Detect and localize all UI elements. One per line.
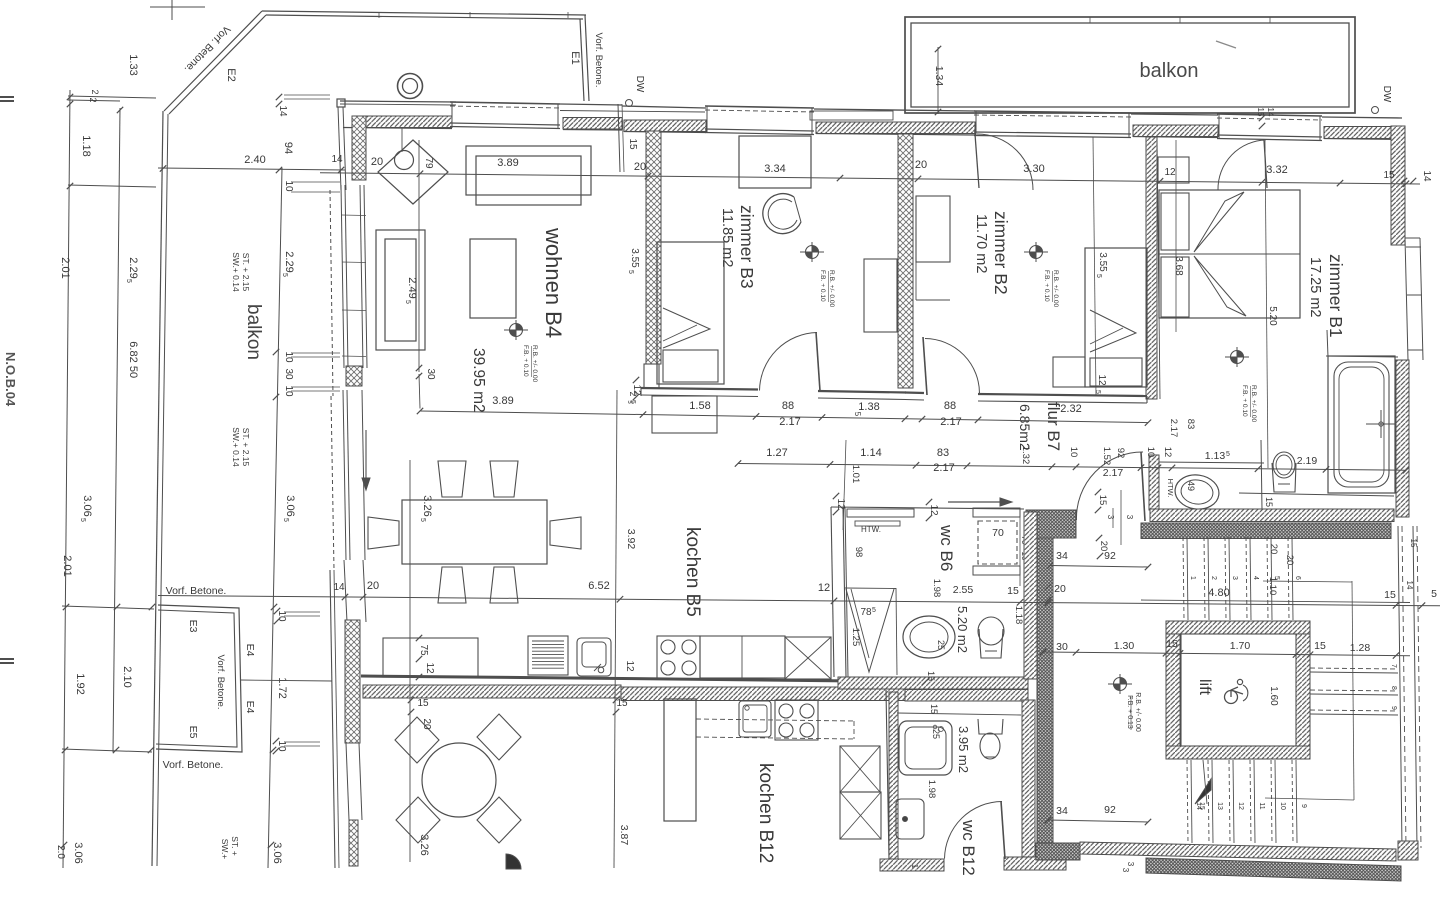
svg-text:5: 5 (281, 273, 288, 277)
svg-text:2: 2 (90, 89, 100, 94)
svg-text:3.34: 3.34 (764, 163, 785, 175)
svg-text:ST. +: ST. + (230, 836, 240, 856)
svg-text:2.49: 2.49 (406, 277, 418, 298)
svg-text:R.B. +/- 0.00: R.B. +/- 0.00 (531, 345, 538, 383)
svg-text:30: 30 (425, 368, 436, 380)
svg-text:83: 83 (937, 447, 949, 459)
svg-text:E4: E4 (244, 701, 256, 714)
svg-text:5: 5 (1095, 274, 1102, 278)
svg-text:2.19: 2.19 (1297, 455, 1318, 467)
svg-text:E3: E3 (187, 620, 199, 633)
svg-text:12: 12 (928, 504, 939, 516)
svg-text:12: 12 (1164, 167, 1176, 178)
svg-text:15: 15 (1097, 495, 1108, 506)
svg-text:8: 8 (1390, 686, 1397, 690)
svg-text:3: 3 (1126, 862, 1135, 867)
svg-text:R.B. +/- 0.00: R.B. +/- 0.00 (1134, 692, 1141, 732)
svg-text:2: 2 (628, 391, 638, 396)
svg-text:30: 30 (1056, 641, 1068, 653)
svg-text:2.17: 2.17 (779, 416, 800, 428)
svg-text:1.01: 1.01 (850, 465, 861, 484)
svg-text:15: 15 (929, 704, 939, 714)
svg-text:Vorf. Betone.: Vorf. Betone. (215, 655, 226, 710)
svg-text:2.17: 2.17 (1168, 419, 1179, 438)
svg-text:25: 25 (936, 640, 946, 650)
svg-text:15: 15 (627, 138, 638, 150)
svg-text:balkon: balkon (1140, 60, 1199, 82)
svg-text:F.B. + 0.10: F.B. + 0.10 (522, 345, 529, 377)
svg-text:F.B. + 0.10: F.B. + 0.10 (1241, 385, 1248, 417)
svg-text:5.20: 5.20 (1267, 306, 1278, 326)
svg-text:2: 2 (88, 97, 98, 102)
svg-text:SW.+ 0.14: SW.+ 0.14 (231, 427, 241, 467)
svg-text:zimmer B1: zimmer B1 (1326, 254, 1346, 338)
svg-text:20: 20 (1284, 555, 1295, 566)
svg-text:2.29: 2.29 (127, 257, 139, 278)
svg-text:11.70 m2: 11.70 m2 (973, 214, 989, 273)
svg-text:1.25: 1.25 (850, 628, 861, 647)
svg-text:3.89: 3.89 (492, 395, 513, 407)
svg-text:5.20 m2: 5.20 m2 (955, 606, 970, 653)
svg-text:9: 9 (1300, 804, 1307, 808)
svg-text:1.34: 1.34 (933, 66, 945, 87)
svg-text:1.32: 1.32 (1020, 446, 1031, 465)
svg-text:20: 20 (915, 159, 927, 171)
svg-text:11.85 m2: 11.85 m2 (719, 208, 735, 267)
svg-text:10: 10 (1068, 447, 1079, 458)
svg-text:75: 75 (418, 644, 429, 656)
svg-text:R.B. +/- 0.00: R.B. +/- 0.00 (1250, 385, 1257, 423)
svg-text:R.B. +/- 0.00: R.B. +/- 0.00 (828, 270, 835, 308)
svg-text:3.32: 3.32 (1266, 164, 1287, 176)
svg-text:7: 7 (1390, 664, 1397, 668)
svg-text:E5: E5 (187, 726, 199, 739)
svg-text:lift: lift (1196, 679, 1213, 696)
svg-text:2.10: 2.10 (121, 666, 133, 687)
svg-text:3.06: 3.06 (81, 495, 93, 516)
svg-text:1.92: 1.92 (74, 673, 86, 694)
svg-text:E2: E2 (225, 68, 237, 81)
svg-text:2.01: 2.01 (59, 257, 71, 278)
svg-text:3.06: 3.06 (271, 842, 283, 863)
svg-text:1.14: 1.14 (860, 447, 881, 459)
svg-text:HTW.: HTW. (861, 525, 881, 534)
svg-text:10: 10 (1145, 447, 1156, 458)
svg-text:1.27: 1.27 (766, 447, 787, 459)
svg-text:2.40: 2.40 (244, 154, 265, 166)
svg-text:15: 15 (1198, 802, 1205, 810)
svg-text:zimmer B3: zimmer B3 (737, 205, 757, 289)
svg-text:17.25 m2: 17.25 m2 (1307, 257, 1323, 317)
svg-text:2.55: 2.55 (953, 584, 974, 596)
svg-text:15: 15 (1384, 589, 1396, 601)
svg-text:3.68: 3.68 (1173, 256, 1184, 276)
svg-text:kochen B5: kochen B5 (682, 527, 703, 617)
svg-text:3.95 m2: 3.95 m2 (956, 726, 971, 773)
svg-text:ST. + 2.15: ST. + 2.15 (241, 428, 251, 467)
svg-text:92: 92 (1104, 804, 1116, 816)
svg-text:10: 10 (1279, 802, 1286, 810)
svg-text:2.29: 2.29 (283, 251, 295, 272)
svg-text:15: 15 (1409, 539, 1418, 548)
svg-text:15: 15 (1166, 638, 1178, 650)
svg-text:15: 15 (616, 698, 628, 709)
svg-text:12: 12 (424, 662, 435, 674)
svg-text:1.58: 1.58 (689, 400, 710, 412)
svg-text:DW: DW (1381, 86, 1392, 103)
svg-text:3.92: 3.92 (625, 529, 637, 550)
svg-text:N.O.B.04: N.O.B.04 (3, 352, 18, 407)
svg-text:12: 12 (1096, 374, 1107, 386)
svg-text:34: 34 (1056, 805, 1068, 817)
svg-text:20: 20 (1054, 583, 1066, 595)
svg-text:98: 98 (853, 547, 864, 558)
svg-text:5: 5 (419, 518, 426, 522)
svg-text:13: 13 (1216, 802, 1223, 810)
svg-text:3.30: 3.30 (1023, 163, 1044, 175)
svg-text:3.55: 3.55 (1097, 252, 1108, 272)
svg-text:1.28: 1.28 (1350, 642, 1371, 654)
svg-text:3: 3 (1231, 576, 1238, 580)
svg-text:1.70: 1.70 (1230, 640, 1251, 652)
svg-text:6.52: 6.52 (588, 580, 609, 592)
svg-text:20: 20 (367, 580, 379, 592)
svg-text:15: 15 (1007, 585, 1019, 597)
svg-text:3: 3 (1125, 515, 1134, 520)
svg-text:E4: E4 (244, 644, 256, 657)
svg-text:3: 3 (1106, 515, 1115, 520)
svg-text:30: 30 (283, 368, 294, 380)
svg-text:2.32: 2.32 (1060, 403, 1081, 415)
svg-text:15: 15 (417, 698, 429, 709)
svg-text:15: 15 (1383, 170, 1395, 181)
svg-text:20: 20 (634, 161, 646, 173)
svg-text:wc B12: wc B12 (959, 819, 978, 876)
svg-text:1: 1 (1189, 576, 1196, 580)
svg-text:1.30: 1.30 (1114, 640, 1135, 652)
svg-text:14: 14 (1421, 170, 1432, 182)
svg-text:78: 78 (860, 607, 872, 618)
svg-text:20: 20 (421, 718, 432, 730)
svg-text:2.17: 2.17 (940, 416, 961, 428)
svg-text:SW.+ 0.14: SW.+ 0.14 (231, 252, 241, 292)
svg-text:88: 88 (782, 400, 794, 412)
svg-text:14: 14 (333, 582, 345, 593)
svg-text:94: 94 (282, 142, 294, 154)
svg-text:92: 92 (1115, 448, 1126, 459)
svg-text:wc B6: wc B6 (937, 524, 956, 571)
svg-text:3.06: 3.06 (284, 495, 296, 516)
svg-text:20: 20 (1268, 544, 1279, 555)
svg-text:2: 2 (1210, 576, 1217, 580)
svg-text:5: 5 (1094, 390, 1101, 394)
svg-text:20: 20 (371, 156, 383, 168)
svg-text:1.60: 1.60 (1268, 686, 1279, 706)
svg-text:wohnen B4: wohnen B4 (541, 227, 566, 338)
svg-text:Vorf. Betone.: Vorf. Betone. (163, 759, 224, 771)
svg-text:4: 4 (1252, 576, 1259, 580)
svg-text:5: 5 (1226, 451, 1230, 458)
svg-text:1.10: 1.10 (1267, 577, 1278, 596)
svg-text:79: 79 (423, 157, 434, 169)
svg-text:1.18: 1.18 (80, 135, 92, 156)
svg-text:15: 15 (1314, 640, 1326, 652)
svg-text:1: 1 (910, 864, 919, 869)
svg-text:F.B. + 0.10: F.B. + 0.10 (1043, 270, 1050, 302)
svg-text:SW.+: SW.+ (220, 839, 230, 860)
svg-text:49: 49 (1186, 481, 1196, 491)
svg-text:zimmer B2: zimmer B2 (991, 211, 1011, 295)
svg-text:1.33: 1.33 (127, 54, 139, 75)
svg-text:9: 9 (1390, 706, 1397, 710)
svg-text:11: 11 (1258, 802, 1265, 809)
svg-text:1.98: 1.98 (931, 579, 942, 598)
svg-text:25: 25 (931, 729, 941, 739)
svg-text:1.52: 1.52 (1101, 447, 1112, 466)
svg-text:3: 3 (1121, 868, 1130, 873)
svg-text:3.55: 3.55 (629, 248, 640, 268)
svg-text:5: 5 (853, 412, 862, 417)
svg-text:ST. + 2.15: ST. + 2.15 (241, 253, 251, 292)
svg-text:14: 14 (331, 154, 343, 165)
svg-text:92: 92 (1104, 550, 1116, 562)
svg-text:12: 12 (1237, 802, 1244, 810)
svg-text:12: 12 (1162, 447, 1173, 458)
svg-text:1.18: 1.18 (1013, 606, 1024, 625)
svg-text:15: 15 (1256, 108, 1265, 117)
svg-text:2.17: 2.17 (1103, 467, 1124, 479)
svg-text:3.89: 3.89 (497, 157, 518, 169)
svg-text:5: 5 (1431, 588, 1437, 600)
svg-text:F.B. + 0.10: F.B. + 0.10 (819, 270, 826, 302)
svg-text:2.0: 2.0 (55, 845, 66, 859)
svg-text:14: 14 (1266, 108, 1275, 117)
svg-text:R.B. +/- 0.00: R.B. +/- 0.00 (1052, 270, 1059, 308)
svg-text:70: 70 (992, 527, 1004, 539)
svg-text:88: 88 (944, 400, 956, 412)
svg-text:14: 14 (277, 105, 288, 117)
svg-text:34: 34 (1056, 550, 1068, 562)
svg-text:50: 50 (127, 366, 139, 378)
svg-text:1.13: 1.13 (1205, 450, 1226, 462)
svg-text:5: 5 (627, 270, 634, 274)
svg-text:balkon: balkon (243, 304, 264, 360)
svg-text:5: 5 (872, 607, 876, 614)
svg-text:1.98: 1.98 (926, 780, 937, 799)
svg-text:kochen B12: kochen B12 (755, 763, 776, 863)
svg-text:6.82: 6.82 (127, 341, 139, 362)
svg-text:83: 83 (1185, 419, 1196, 430)
svg-text:3.26: 3.26 (421, 495, 433, 516)
svg-text:5: 5 (404, 300, 411, 304)
svg-text:4.80: 4.80 (1208, 587, 1229, 599)
svg-text:6: 6 (1294, 576, 1301, 580)
svg-text:5: 5 (125, 279, 132, 283)
svg-text:14: 14 (1405, 581, 1414, 590)
svg-text:E1: E1 (569, 51, 581, 64)
svg-text:F.B. + 0.13: F.B. + 0.13 (1126, 695, 1133, 729)
svg-text:12: 12 (624, 660, 635, 672)
svg-text:HTW.: HTW. (1166, 479, 1175, 498)
svg-text:3.06: 3.06 (72, 842, 84, 863)
svg-text:6.85m2: 6.85m2 (1017, 404, 1033, 451)
svg-text:15: 15 (1264, 497, 1274, 507)
svg-text:Vorf. Betone.: Vorf. Betone. (593, 33, 604, 88)
svg-text:2.17: 2.17 (933, 462, 954, 474)
svg-text:3.87: 3.87 (618, 825, 630, 846)
svg-text:12: 12 (818, 582, 830, 594)
svg-text:3.26: 3.26 (418, 834, 430, 855)
svg-text:39.95 m2: 39.95 m2 (470, 348, 487, 413)
svg-text:5: 5 (282, 518, 289, 522)
svg-text:DW: DW (634, 76, 645, 93)
svg-text:5: 5 (79, 518, 86, 522)
svg-text:2.01: 2.01 (61, 555, 73, 576)
